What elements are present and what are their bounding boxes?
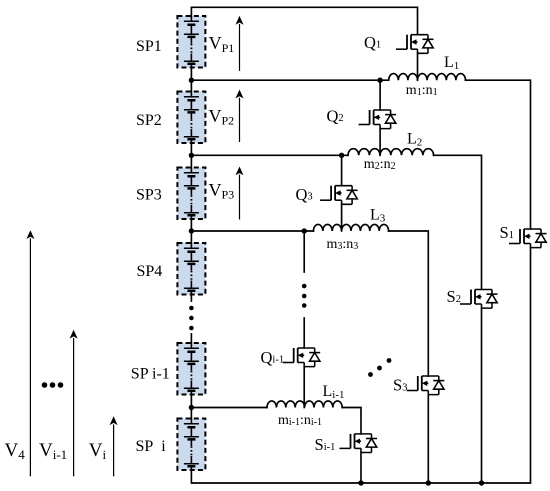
inductor L3 bbox=[313, 224, 388, 231]
arrow Vi bbox=[113, 424, 115, 476]
battery pack SP3 bbox=[177, 168, 205, 220]
svg-text:SP i: SP i bbox=[136, 438, 167, 455]
transistor Qi-1 bbox=[283, 348, 321, 367]
wire Q3 drain from row2 junction bbox=[341, 155, 343, 185]
wire SPi-1 to SPi with row i-1 junction bbox=[190, 395, 192, 419]
svg-text:Q2: Q2 bbox=[327, 107, 344, 126]
wire Q2 source to L2 tap bbox=[379, 129, 381, 156]
battery pack SP4 bbox=[177, 243, 205, 295]
svg-text:S1: S1 bbox=[500, 223, 514, 242]
svg-text:Li-1: Li-1 bbox=[323, 383, 345, 401]
wire row2 left: SP2/SP3 junction to L2 bbox=[191, 143, 348, 168]
wire row3 junction down toward Qi-1 (solid part) bbox=[303, 231, 305, 272]
wire Q2 drain from row1 junction bbox=[379, 80, 381, 110]
wire Q3 source to L3 tap bbox=[341, 204, 343, 231]
svg-text:Q3: Q3 bbox=[296, 185, 313, 204]
arrow VP3 bbox=[239, 175, 241, 220]
svg-text:mi-1:ni-1: mi-1:ni-1 bbox=[278, 413, 322, 428]
junction row2 Q3 branch bbox=[339, 153, 344, 158]
svg-text:VP3: VP3 bbox=[209, 180, 235, 202]
transistor Q1 bbox=[396, 35, 434, 54]
wire row i-1 right: Li-1 to Si-1 bbox=[342, 408, 361, 434]
continuation dots battery chain bbox=[189, 306, 194, 311]
transistor Q3 bbox=[320, 186, 358, 205]
junction row3 battery bbox=[189, 228, 194, 233]
transistor Si-1 bbox=[340, 434, 378, 453]
wire Si-1 source to bottom bus bbox=[360, 452, 362, 483]
junction row3 Qi-1 branch bbox=[302, 228, 307, 233]
battery pack SPi-1 bbox=[177, 343, 205, 395]
junction row1 battery bbox=[189, 78, 194, 83]
arrow VP2 bbox=[239, 98, 241, 142]
svg-text:m3:n3: m3:n3 bbox=[327, 237, 359, 252]
svg-text:Q1: Q1 bbox=[364, 33, 381, 52]
wire S3 column source to bottom bus bbox=[427, 395, 429, 483]
svg-text:Vi-1: Vi-1 bbox=[39, 440, 67, 462]
battery pack SP1 bbox=[177, 16, 205, 68]
inductor Li-1 bbox=[267, 401, 342, 408]
wire battery chain SP4 to SPi-1 (solid parts) bbox=[190, 295, 192, 344]
wire row i-1: junction to Li-1 bbox=[191, 407, 267, 409]
arrow V4 bbox=[29, 238, 31, 476]
transistor Q2 bbox=[359, 110, 397, 129]
svg-text:L1: L1 bbox=[444, 54, 459, 72]
transistor S3 bbox=[407, 376, 445, 395]
svg-text:VP2: VP2 bbox=[209, 106, 235, 128]
continuation dots diagonal near S3 bbox=[368, 372, 373, 377]
svg-text:m2:n2: m2:n2 bbox=[364, 157, 396, 172]
arrow Vi-1 bbox=[73, 338, 75, 477]
battery pack SPi bbox=[177, 419, 205, 471]
wire SPi bottom to bottom bus bbox=[191, 248, 530, 484]
wire row1 left: SP1/SP2 junction to L1 bbox=[191, 68, 388, 92]
svg-text:SP2: SP2 bbox=[136, 112, 162, 129]
svg-text:Si-1: Si-1 bbox=[315, 435, 336, 454]
junction bottom S2 bbox=[479, 480, 484, 485]
junction row i-1 battery bbox=[189, 405, 194, 410]
wire Qi-1 source to Li-1 tap bbox=[303, 367, 305, 408]
svg-text:m1:n1: m1:n1 bbox=[406, 83, 438, 98]
svg-text:Vi: Vi bbox=[89, 440, 107, 462]
svg-text:V4: V4 bbox=[5, 440, 26, 462]
svg-text:SP4: SP4 bbox=[137, 263, 163, 280]
junction bottom Si-1 bbox=[358, 480, 363, 485]
svg-text:SP i-1: SP i-1 bbox=[131, 366, 170, 383]
transistor S2 bbox=[460, 290, 498, 309]
svg-text:VP1: VP1 bbox=[209, 33, 235, 55]
wire row1 right: L1 to S1 column bbox=[466, 80, 531, 229]
wire S2 column source to bottom bus bbox=[481, 308, 483, 483]
wire Q1 source to L1 tap bbox=[417, 53, 419, 80]
junction row1 Q2 branch bbox=[377, 78, 382, 83]
wire row3 left: SP3/SP4 junction to L3 bbox=[191, 219, 313, 243]
wire row2 right: L2 to S2 column bbox=[434, 155, 482, 288]
svg-text:SP3: SP3 bbox=[136, 187, 162, 204]
inductor L2 bbox=[348, 149, 434, 156]
continuation dots left Vi-1 bbox=[42, 382, 48, 388]
wire top bus from SP1 top to Q1 drain bbox=[191, 7, 417, 34]
wire row3 right: L3 to S3 column bbox=[389, 231, 429, 376]
svg-text:S2: S2 bbox=[447, 287, 461, 306]
arrow VP1 bbox=[239, 24, 241, 71]
svg-text:Qi-1: Qi-1 bbox=[261, 348, 285, 367]
svg-text:SP1: SP1 bbox=[136, 38, 162, 55]
battery pack SP2 bbox=[177, 92, 205, 144]
inductor L1 bbox=[389, 74, 466, 81]
transistor S1 bbox=[509, 229, 547, 248]
svg-text:L3: L3 bbox=[370, 207, 386, 225]
wire resume to Qi-1 drain bbox=[303, 318, 305, 348]
svg-text:L2: L2 bbox=[407, 131, 422, 149]
junction row2 battery bbox=[189, 153, 194, 158]
junction bottom S3 bbox=[426, 480, 431, 485]
continuation dots Qi-1 branch bbox=[302, 284, 307, 289]
svg-text:S3: S3 bbox=[393, 375, 407, 394]
